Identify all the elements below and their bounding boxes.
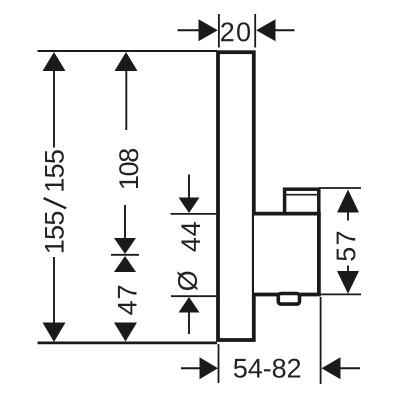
dim 155/155 line upper bbox=[53, 70, 55, 148]
valve body outline bbox=[254, 214, 319, 295]
dim 54-82 tail left bbox=[181, 367, 200, 369]
dim 20 arrow right bbox=[256, 19, 275, 41]
dim 108 label bbox=[119, 149, 138, 188]
dim 57 arrow down bbox=[337, 271, 359, 294]
dim 47 label bbox=[118, 286, 137, 315]
dim 155/155 arrow up bbox=[43, 52, 66, 71]
dim 54-82 arrow right bbox=[322, 357, 341, 379]
dim 44 arrow up bbox=[179, 297, 200, 313]
dim 20 extension right bbox=[254, 14, 256, 48]
bottom tab bbox=[278, 294, 299, 305]
dim 54-82 extension right bbox=[320, 297, 322, 384]
dim 108 arrow up bbox=[115, 52, 138, 71]
dim 54-82 extension left bbox=[218, 344, 220, 383]
dim 47 arrow down bbox=[114, 323, 137, 342]
dim 57 extension lower bbox=[318, 293, 361, 295]
top datum line bbox=[38, 50, 218, 52]
dim 20 arrow left bbox=[199, 19, 218, 41]
dim 108 line upper bbox=[125, 70, 127, 130]
dim 155/155 line lower bbox=[53, 257, 55, 323]
dim 57 line upper bbox=[347, 212, 349, 221]
dim 44 label bbox=[181, 222, 200, 251]
dim 155/155 label bbox=[45, 212, 64, 252]
dim 54-82 label bbox=[234, 359, 300, 378]
dim 44 diameter symbol bbox=[177, 271, 197, 290]
dim 108 arrow down bbox=[114, 238, 136, 254]
dim 44 line below bbox=[188, 313, 190, 335]
dim 54-82 tail right bbox=[341, 367, 361, 369]
dim 44 extension upper bbox=[171, 213, 218, 215]
handle top box inner line bbox=[285, 194, 317, 196]
wall plate outline bbox=[218, 52, 254, 340]
dim 54-82 arrow left bbox=[200, 357, 219, 379]
dim 57 arrow up bbox=[337, 190, 359, 213]
dim 47 arrow up bbox=[114, 256, 136, 272]
dim 108 line lower bbox=[124, 205, 126, 239]
dim 44 extension lower bbox=[171, 295, 217, 297]
dim 155/155 arrow down bbox=[43, 323, 66, 343]
dim 20 label bbox=[221, 22, 250, 41]
dim 20 tail left bbox=[178, 29, 200, 31]
dim 44 line above bbox=[188, 175, 190, 199]
dim 20 tail right bbox=[276, 29, 295, 31]
handle top box bbox=[285, 189, 319, 213]
dim 57 line lower bbox=[347, 266, 349, 274]
bottom datum line bbox=[38, 342, 218, 345]
junction tick bbox=[111, 254, 139, 256]
dim 57 extension upper bbox=[319, 187, 361, 189]
dim 57 label bbox=[337, 232, 356, 261]
dim 20 extension left bbox=[218, 14, 220, 48]
dim 44 arrow down bbox=[179, 198, 200, 214]
